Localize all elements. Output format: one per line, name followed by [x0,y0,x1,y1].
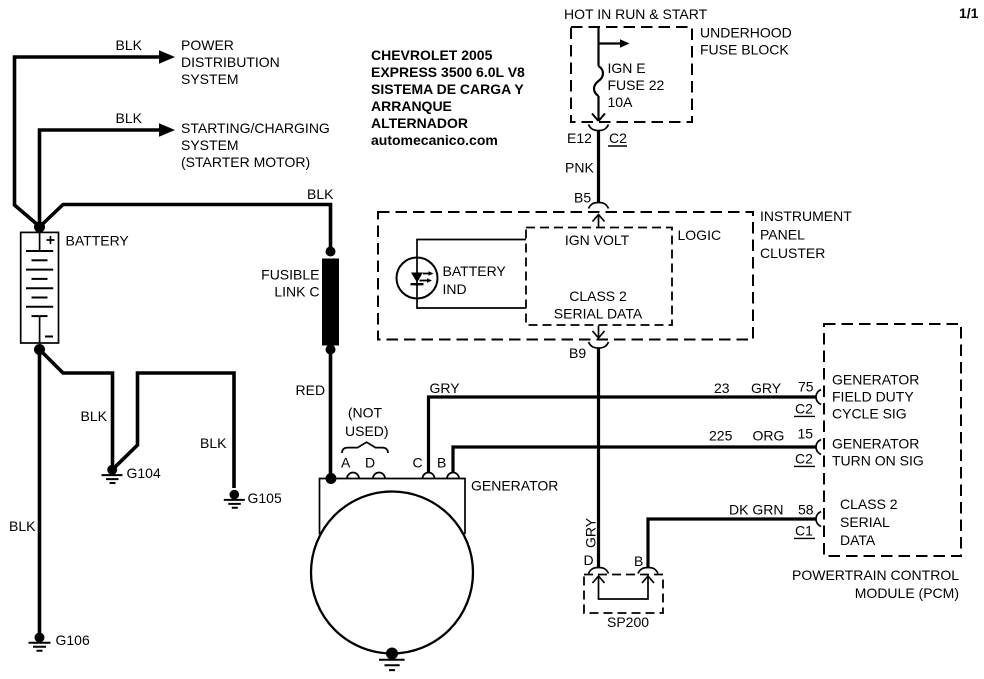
svg-text:G106: G106 [56,632,90,648]
ground G104 [102,465,123,483]
svg-text:HOT IN RUN & START: HOT IN RUN & START [564,6,708,22]
wire D GRY cluster to splice SP200 [597,348,600,568]
svg-text:(STARTER MOTOR): (STARTER MOTOR) [181,154,310,170]
svg-text:CLASS 2: CLASS 2 [840,496,898,512]
svg-text:E12: E12 [567,130,592,146]
instrument panel cluster box [378,212,753,340]
splice SP200 internal link [593,576,655,599]
ground generator case [379,660,405,670]
svg-text:SYSTEM: SYSTEM [181,137,239,153]
svg-text:15: 15 [798,426,814,442]
svg-text:C: C [413,455,423,471]
label IGN E FUSE 22 10A [608,60,665,110]
splice SP200 box [584,575,663,614]
underhood fuse block box [571,27,692,122]
wire BLK battery to G106 [38,350,42,634]
svg-text:GRY: GRY [430,380,461,396]
svg-text:STARTING/CHARGING: STARTING/CHARGING [181,120,330,136]
svg-text:FUSIBLE: FUSIBLE [261,267,319,283]
wire DK GRN PCM to splice [648,519,816,568]
svg-text:USED): USED) [345,423,389,439]
svg-text:(NOT: (NOT [348,405,383,421]
ground G106 [29,633,51,651]
junction generator ground [386,648,398,660]
svg-text:BLK: BLK [9,518,36,534]
svg-text:C1: C1 [795,523,813,539]
junction generator BAT terminal [326,473,337,484]
label G106 [56,632,90,648]
node STARTING/CHARGING SYSTEM [181,120,330,170]
svg-text:SERIAL: SERIAL [840,514,890,530]
connector splice B [638,568,658,574]
label INSTRUMENT PANEL CLUSTER [760,208,852,261]
svg-text:ALTERNADOR: ALTERNADOR [371,115,468,131]
svg-text:CLUSTER: CLUSTER [760,245,825,261]
fuse output arrow [592,96,605,121]
svg-text:automecanico.com: automecanico.com [371,132,498,148]
wire BLK battery to G104 [40,350,113,466]
connector B5 [589,203,609,228]
label POWERTRAIN CONTROL MODULE (PCM) [792,567,959,601]
label PNK [565,160,594,176]
svg-text:A: A [341,455,351,471]
svg-text:1/1: 1/1 [959,5,979,21]
svg-text:CYCLE SIG: CYCLE SIG [832,406,907,422]
ground G105 [224,490,245,508]
svg-text:B: B [437,455,446,471]
svg-text:PANEL: PANEL [760,227,805,243]
wire ORG generator B to PCM [453,447,816,473]
connector C2 pin 75 [794,390,821,417]
connector C1 pin 58 [794,512,821,539]
label G104 [127,465,161,481]
branch arrow inside fuse block [599,39,630,48]
label BLK (power distribution wire) [116,37,143,53]
wire BLK battery to fusible link [40,205,331,251]
logic module box [526,228,672,326]
label CLASS 2 SERIAL DATA (logic) [554,288,643,322]
terminal bump D [373,473,385,479]
svg-text:B: B [634,553,643,569]
svg-text:LOGIC: LOGIC [678,227,722,243]
svg-text:GENERATOR: GENERATOR [832,372,919,388]
generator housing [311,479,473,654]
svg-text:BLK: BLK [116,37,143,53]
svg-text:C2: C2 [609,130,627,146]
wire RED fusible link to generator [329,350,333,479]
svg-text:POWERTRAIN CONTROL: POWERTRAIN CONTROL [792,567,959,583]
pin label C [413,455,423,471]
label DK GRN 58 [729,502,814,518]
powertrain control module box [824,324,961,556]
fuse IGN E FUSE 22 10A [594,66,603,96]
svg-text:DISTRIBUTION: DISTRIBUTION [181,54,280,70]
svg-text:D: D [584,552,594,568]
label SP200 [607,614,649,630]
wire BLK battery to starting/charging system [40,130,162,223]
svg-text:GENERATOR: GENERATOR [471,478,558,494]
svg-text:INSTRUMENT: INSTRUMENT [760,208,852,224]
label FUSIBLE LINK C [261,267,319,300]
connector splice D [589,568,609,574]
label B (splice pin) [634,553,643,569]
connector E12 / C2 [567,125,627,147]
label GRY (rotated, splice wire) [583,517,599,548]
label 225 ORG 15 [709,426,813,444]
svg-text:CLASS 2: CLASS 2 [569,288,627,304]
title block [371,47,525,148]
svg-text:G104: G104 [127,465,161,481]
wire PNK fuse block to cluster [597,131,600,204]
svg-text:BATTERY: BATTERY [443,263,507,279]
svg-text:58: 58 [798,502,814,518]
svg-text:SERIAL DATA: SERIAL DATA [554,306,643,322]
svg-text:BLK: BLK [116,110,143,126]
wire ignition feed inside fuse block [597,27,599,66]
svg-text:D: D [365,455,375,471]
connector C2 pin 15 [794,440,821,467]
svg-text:MODULE (PCM): MODULE (PCM) [855,585,959,601]
label BLK (G105 wire) [200,435,227,451]
pin label D [365,455,375,471]
label (NOT USED) [345,405,389,440]
label B5 [574,190,591,206]
svg-text:DK GRN: DK GRN [729,502,783,518]
svg-text:B9: B9 [569,345,586,361]
svg-text:DATA: DATA [840,532,876,548]
svg-text:SYSTEM: SYSTEM [181,71,239,87]
wire GRY generator C to PCM [429,397,817,473]
page number 1/1 [959,5,979,21]
label GENERATOR TURN ON SIG [832,436,924,469]
arrowhead to starting/charging [159,123,175,137]
junction battery positive [34,222,45,233]
label UNDERHOOD FUSE BLOCK [700,25,792,58]
label GRY (at generator) [430,380,461,396]
svg-text:PNK: PNK [565,160,594,176]
pin label A [341,455,351,471]
node POWER DISTRIBUTION SYSTEM [181,37,280,87]
svg-text:75: 75 [798,379,814,395]
label 23 GRY 75 [714,379,814,397]
label BLK (fusible link wire) [307,186,334,202]
svg-text:IGN VOLT: IGN VOLT [565,232,630,248]
label CLASS 2 SERIAL DATA (PCM) [840,496,898,548]
label G105 [248,490,282,506]
svg-text:RED: RED [296,382,326,398]
label D (splice pin) [584,552,594,568]
svg-text:SP200: SP200 [607,614,649,630]
svg-text:BLK: BLK [81,408,108,424]
svg-text:225: 225 [709,428,733,444]
svg-text:23: 23 [714,380,730,396]
junction fusible link bottom [326,345,336,355]
svg-text:IGN E: IGN E [608,60,646,76]
svg-text:POWER: POWER [181,37,234,53]
svg-text:SISTEMA DE CARGA Y: SISTEMA DE CARGA Y [371,81,524,97]
svg-text:CHEVROLET 2005: CHEVROLET 2005 [371,47,493,63]
label RED [296,382,326,398]
label GENERATOR [471,478,558,494]
svg-text:BLK: BLK [200,435,227,451]
terminal bump C [423,473,435,479]
battery indicator box [417,240,526,309]
label BATTERY [66,233,130,249]
label BLK (G104 wire) [81,408,108,424]
label BLK (starting/charging wire) [116,110,143,126]
label BATTERY IND [443,263,507,297]
svg-text:FIELD DUTY: FIELD DUTY [832,389,914,405]
svg-text:GRY: GRY [751,380,782,396]
svg-text:C2: C2 [795,401,813,417]
LED battery indicator [397,258,438,299]
svg-text:GENERATOR: GENERATOR [832,436,919,452]
svg-text:TURN ON SIG: TURN ON SIG [832,453,924,469]
junction battery negative [34,344,45,355]
label HOT IN RUN & START [564,6,708,22]
svg-text:UNDERHOOD: UNDERHOOD [700,25,792,41]
svg-text:FUSE 22: FUSE 22 [608,77,665,93]
svg-text:IND: IND [443,281,467,297]
svg-text:C2: C2 [795,451,813,467]
label LOGIC [678,227,722,243]
wire BLK G104 to G105 [112,373,234,488]
label BLK (G106 wire) [9,518,36,534]
svg-text:FUSE BLOCK: FUSE BLOCK [700,42,789,58]
svg-text:GRY: GRY [583,517,599,548]
svg-text:G105: G105 [248,490,282,506]
wire BLK battery to power distribution system [15,57,162,226]
label B9 [569,345,586,361]
svg-text:ORG: ORG [753,428,785,444]
arrowhead to power distribution [159,50,175,64]
terminal bump A [347,473,359,479]
connector B9 [589,326,609,349]
svg-text:10A: 10A [608,94,634,110]
label GENERATOR FIELD DUTY CYCLE SIG [832,372,919,422]
junction fusible link top [326,247,336,257]
fusible link C [322,259,339,346]
brace over unused terminals [342,442,388,453]
svg-text:EXPRESS 3500 6.0L V8: EXPRESS 3500 6.0L V8 [371,64,525,80]
label IGN VOLT [565,232,630,248]
pin label B [437,455,446,471]
svg-text:BATTERY: BATTERY [66,233,130,249]
terminal bump B [447,473,459,479]
svg-text:ARRANQUE: ARRANQUE [371,98,452,114]
svg-text:B5: B5 [574,190,591,206]
battery BATTERY [21,232,59,343]
svg-text:LINK C: LINK C [274,284,319,300]
svg-text:BLK: BLK [307,186,334,202]
